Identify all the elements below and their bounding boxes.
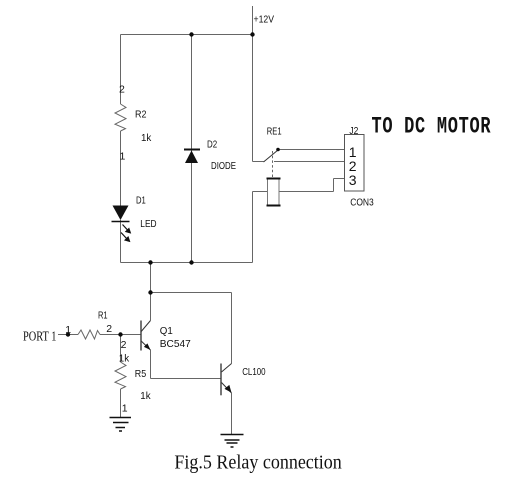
svg-text:1k: 1k (140, 390, 151, 402)
svg-text:2: 2 (106, 323, 112, 335)
svg-text:TO DC MOTOR: TO DC MOTOR (372, 114, 492, 140)
svg-text:RE1: RE1 (267, 125, 282, 137)
svg-text:1k: 1k (119, 353, 130, 365)
svg-text:1: 1 (122, 403, 128, 415)
svg-text:D1: D1 (136, 195, 146, 207)
svg-text:+12V: +12V (254, 13, 275, 25)
svg-text:Q1: Q1 (160, 325, 173, 337)
svg-text:1: 1 (120, 151, 126, 163)
svg-text:DIODE: DIODE (211, 160, 236, 172)
svg-text:LED: LED (140, 218, 157, 230)
svg-text:1: 1 (65, 324, 71, 336)
svg-text:CL100: CL100 (242, 366, 266, 378)
svg-text:R2: R2 (135, 108, 147, 120)
svg-text:BC547: BC547 (160, 338, 191, 350)
svg-text:R1: R1 (98, 310, 108, 322)
svg-text:2: 2 (121, 339, 127, 351)
svg-text:J2: J2 (349, 125, 358, 137)
svg-text:2: 2 (119, 83, 125, 95)
svg-text:1k: 1k (141, 132, 152, 144)
svg-text:R5: R5 (135, 368, 147, 380)
svg-text:PORT 1: PORT 1 (23, 329, 57, 344)
svg-text:3: 3 (349, 172, 357, 188)
svg-text:CON3: CON3 (350, 197, 374, 209)
svg-text:D2: D2 (207, 138, 217, 150)
svg-text:Fig.5 Relay connection: Fig.5 Relay connection (174, 452, 342, 473)
